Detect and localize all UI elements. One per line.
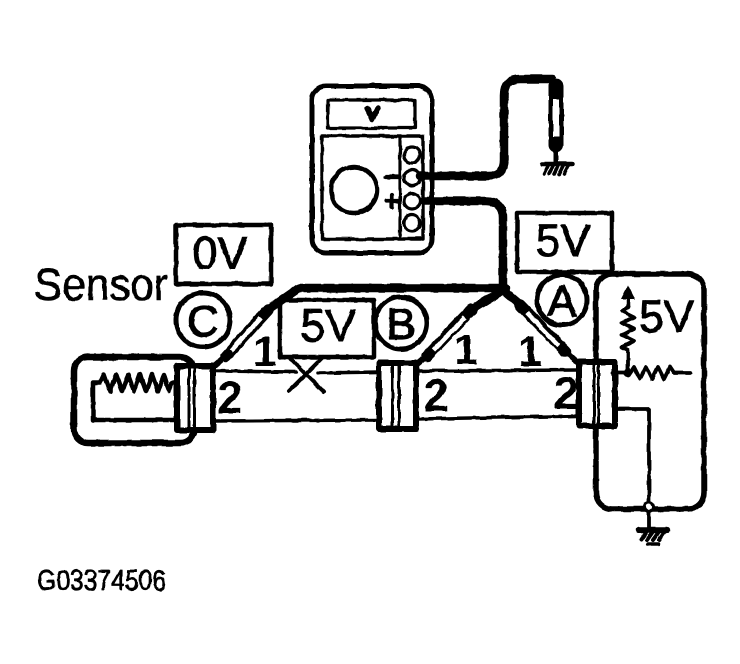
wire: junction to probe B [474, 290, 503, 308]
wire: junction to probe A [503, 290, 522, 306]
multimeter display window [328, 100, 415, 128]
svg-text:5V: 5V [535, 215, 590, 266]
display V label [367, 108, 378, 119]
svg-text:5V: 5V [300, 300, 355, 351]
jack 1 [404, 147, 420, 163]
svg-text:2: 2 [423, 370, 448, 421]
minus sign [386, 175, 398, 179]
probe A [520, 305, 579, 364]
harness wire 2 (terminal 2, C-B) [213, 420, 379, 421]
node label C [176, 293, 230, 347]
plus sign [386, 195, 398, 207]
node: ECU input junction [624, 369, 632, 377]
harness wire 1 (B-A segment) [416, 370, 578, 371]
svg-text:5V: 5V [639, 291, 694, 342]
node: probe junction [498, 284, 508, 294]
5V supply arrow [621, 285, 635, 307]
harness wire 1 (terminal 1, C-B, broken) [213, 371, 296, 372]
svg-text:0V: 0V [192, 228, 247, 279]
jack 3 (V +) [404, 193, 420, 209]
probe B [414, 309, 472, 367]
svg-text:B: B [386, 300, 415, 349]
5V measurement box (A) [517, 213, 612, 272]
svg-text:G03374506: G03374506 [37, 565, 166, 597]
harness wire 2 (B-A segment) [416, 416, 578, 419]
jack 2 (COM -) [404, 170, 420, 186]
wire: negative test lead from jack 2 to ground probe [420, 79, 552, 176]
ground G1 (body ground) [542, 164, 572, 174]
svg-text:2: 2 [553, 368, 578, 419]
multimeter panel [322, 136, 423, 239]
svg-text:2: 2 [217, 372, 242, 423]
wire: connector A pin1 to junction [613, 371, 628, 375]
svg-text:1: 1 [253, 328, 277, 376]
probe P1 (to ground) [549, 86, 564, 163]
pull-up resistor R1 (vertical zigzag) [622, 307, 634, 371]
svg-text:1: 1 [518, 328, 542, 376]
ground G2 (ECU ground) [639, 530, 666, 544]
wire: positive test lead from jack 3 down to junction [424, 201, 503, 287]
node on ECU bottom edge [645, 503, 654, 512]
node label A [537, 275, 587, 325]
ECU box [596, 274, 704, 509]
svg-text:Sensor: Sensor [34, 259, 168, 310]
multimeter U1 body [312, 86, 432, 253]
jack 4 [404, 215, 420, 231]
0V measurement box [176, 225, 271, 284]
node label B [375, 297, 427, 349]
5V measurement box (B) [280, 300, 374, 357]
open circuit X mark [289, 357, 324, 392]
connector C (sensor connector) [177, 366, 213, 430]
wire: connector A pin2 to ECU ground [616, 409, 649, 528]
probe C [211, 310, 268, 369]
svg-text:A: A [547, 277, 577, 326]
svg-text:C: C [187, 297, 219, 346]
connector B (intermediate) [379, 363, 416, 429]
svg-text:1: 1 [454, 326, 478, 374]
resistor R2 (horizontal zigzag to internal circuit) [630, 367, 690, 379]
rotary dial [331, 167, 377, 213]
sensor element (thermistor) loop [93, 375, 177, 421]
sensor box [74, 357, 194, 443]
connector A (ECU connector) [579, 362, 615, 426]
wire: junction to probe C [266, 288, 506, 311]
jack column divider [398, 137, 401, 238]
